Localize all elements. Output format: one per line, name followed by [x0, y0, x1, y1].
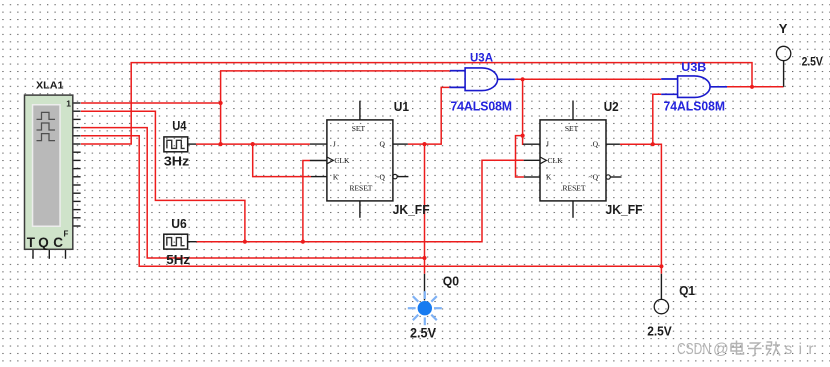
svg-text:3Hz: 3Hz — [164, 153, 190, 168]
svg-text:Q: Q — [593, 140, 599, 149]
svg-text:CLK: CLK — [334, 156, 350, 165]
svg-text:Q: Q — [38, 235, 49, 250]
svg-text:CLK: CLK — [548, 156, 564, 165]
svg-text:K: K — [546, 172, 552, 181]
svg-text:J: J — [333, 140, 336, 149]
svg-text:SET: SET — [352, 124, 366, 133]
svg-text:2.5V: 2.5V — [410, 325, 436, 340]
svg-text:RESET: RESET — [349, 184, 372, 193]
svg-text:K: K — [333, 172, 339, 181]
svg-text:U1: U1 — [394, 99, 409, 114]
svg-text:sir: sir — [785, 341, 814, 358]
svg-text:RESET: RESET — [563, 184, 586, 193]
svg-text:74ALS08M: 74ALS08M — [451, 99, 513, 113]
svg-text:U4: U4 — [172, 118, 187, 133]
svg-text:2.5V: 2.5V — [647, 323, 672, 338]
svg-text:SET: SET — [565, 124, 579, 133]
svg-text:J: J — [546, 140, 549, 149]
svg-text:Q1: Q1 — [679, 283, 695, 298]
svg-text:2.5V: 2.5V — [802, 57, 823, 69]
svg-text:~Q: ~Q — [375, 172, 385, 181]
svg-text:JK_FF: JK_FF — [393, 203, 430, 217]
svg-text:U3A: U3A — [470, 53, 493, 65]
svg-text:T: T — [27, 235, 36, 250]
svg-text:74ALS08M: 74ALS08M — [664, 99, 726, 113]
svg-text:JK_FF: JK_FF — [606, 203, 643, 217]
svg-text:U3B: U3B — [681, 62, 706, 74]
svg-text:U2: U2 — [604, 99, 619, 114]
svg-text:C: C — [53, 235, 63, 250]
svg-text:1: 1 — [66, 99, 71, 109]
svg-text:5Hz: 5Hz — [166, 252, 190, 267]
svg-text:XLA1: XLA1 — [36, 80, 64, 92]
svg-text:~Q: ~Q — [589, 172, 599, 181]
svg-text:Q0: Q0 — [443, 274, 459, 289]
svg-text:Y: Y — [779, 21, 788, 36]
svg-text:Q: Q — [379, 140, 385, 149]
svg-text:F: F — [64, 230, 69, 239]
svg-text:@: @ — [713, 341, 729, 358]
svg-text:U6: U6 — [171, 216, 187, 231]
svg-text:CSDN: CSDN — [677, 341, 711, 358]
